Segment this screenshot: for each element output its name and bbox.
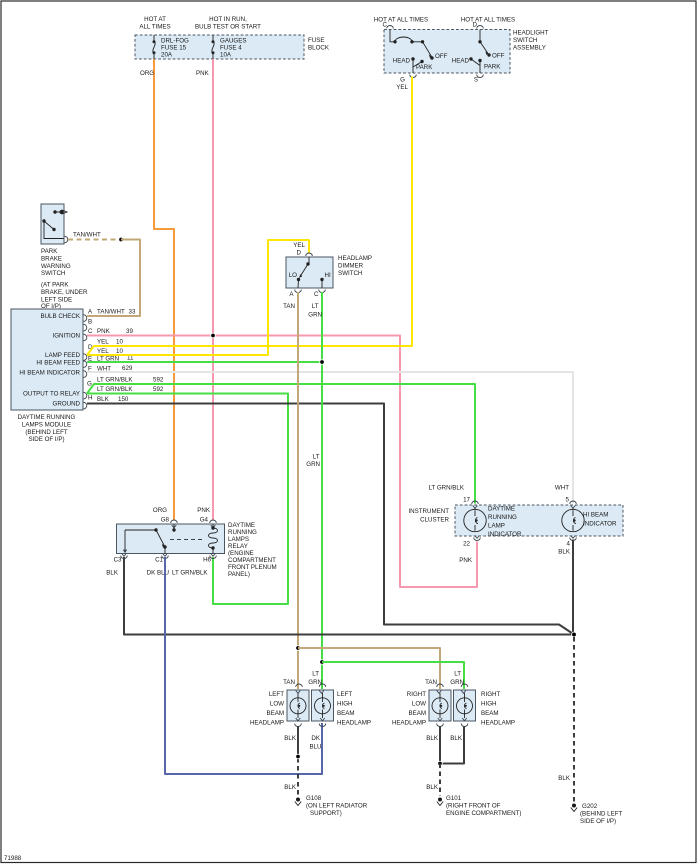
svg-text:OUTPUT TO RELAY: OUTPUT TO RELAY	[23, 391, 80, 398]
svg-text:G4: G4	[200, 517, 209, 524]
svg-text:LO: LO	[289, 272, 297, 279]
svg-text:DAYTIME: DAYTIME	[228, 522, 255, 529]
svg-text:LEFT: LEFT	[337, 691, 352, 698]
svg-text:OFF: OFF	[435, 53, 448, 60]
svg-text:HIGH: HIGH	[337, 701, 352, 708]
svg-text:FUSE 4: FUSE 4	[220, 45, 242, 52]
svg-text:BRAKE: BRAKE	[41, 255, 62, 262]
fuse block box	[135, 35, 304, 59]
svg-text:592: 592	[153, 377, 164, 384]
svg-text:CLUSTER: CLUSTER	[420, 517, 449, 524]
svg-text:HOT AT: HOT AT	[144, 16, 166, 23]
svg-text:HOT AT ALL TIMES: HOT AT ALL TIMES	[461, 17, 515, 24]
relay actuator dashed link	[170, 539, 205, 541]
svg-text:BLOCK: BLOCK	[308, 45, 330, 52]
svg-text:G101: G101	[446, 795, 462, 802]
svg-text:S: S	[474, 77, 478, 84]
svg-text:GAUGES: GAUGES	[220, 38, 246, 45]
svg-text:BULB TEST OR START: BULB TEST OR START	[195, 24, 261, 31]
dimmer switch contacts	[289, 257, 331, 288]
svg-text:LT: LT	[312, 671, 319, 678]
svg-text:RELAY: RELAY	[228, 543, 248, 550]
svg-text:TAN/WHT: TAN/WHT	[73, 232, 101, 239]
svg-text:FUSE: FUSE	[308, 37, 325, 44]
ground G108	[295, 798, 301, 806]
park brake switch label	[41, 248, 88, 310]
svg-text:17: 17	[463, 497, 470, 504]
svg-text:BLK: BLK	[558, 775, 571, 782]
right low beam headlamp	[429, 684, 451, 727]
svg-text:DK: DK	[311, 735, 320, 742]
svg-text:C: C	[88, 328, 93, 335]
svg-text:HEAD: HEAD	[452, 58, 470, 65]
svg-text:HOT IN RUN,: HOT IN RUN,	[209, 16, 247, 23]
svg-text:TAN: TAN	[283, 679, 295, 686]
svg-text:INDICATOR: INDICATOR	[488, 531, 522, 538]
svg-text:22: 22	[463, 541, 470, 548]
svg-text:G8: G8	[161, 517, 170, 524]
splice left ground	[296, 754, 301, 759]
svg-text:YEL: YEL	[396, 84, 408, 91]
svg-text:10: 10	[116, 348, 123, 355]
splice right ground	[438, 761, 443, 766]
svg-text:5: 5	[566, 497, 570, 504]
fuse GAUGES FUSE 4 10A	[212, 35, 247, 59]
svg-text:LAMP: LAMP	[488, 523, 505, 530]
svg-text:DAYTIME: DAYTIME	[488, 506, 515, 513]
svg-text:SIDE OF I/P): SIDE OF I/P)	[28, 436, 64, 443]
wire LT GRN dimmer C down to left high beam headlamp	[321, 292, 323, 689]
svg-text:SWITCH: SWITCH	[338, 270, 362, 277]
wire WHT module F to cluster pin 5	[87, 372, 573, 504]
svg-text:HEADLAMP: HEADLAMP	[392, 720, 426, 727]
svg-text:YEL: YEL	[293, 242, 305, 249]
svg-text:4: 4	[567, 541, 571, 548]
svg-text:629: 629	[122, 365, 133, 372]
svg-text:BRAKE, UNDER: BRAKE, UNDER	[41, 289, 88, 296]
svg-text:PARK: PARK	[41, 248, 58, 255]
pin park brake switch	[65, 236, 68, 243]
pin S headlight switch	[477, 75, 484, 78]
wire DK BLU relay C1 to left high beam headlamp	[165, 557, 322, 774]
svg-text:(ENGINE: (ENGINE	[228, 550, 254, 557]
svg-text:INDICATOR: INDICATOR	[583, 521, 617, 528]
svg-text:PNK: PNK	[196, 70, 210, 77]
dimmer switch box	[286, 257, 333, 288]
svg-text:HEADLAMP: HEADLAMP	[481, 720, 515, 727]
svg-text:HI BEAM: HI BEAM	[583, 512, 608, 519]
svg-text:COMPARTMENT: COMPARTMENT	[228, 557, 276, 564]
wire BLK relay C3 to ground junction	[124, 557, 574, 635]
svg-text:BEAM: BEAM	[266, 710, 284, 717]
left high beam headlamp	[312, 684, 334, 727]
svg-text:GROUND: GROUND	[53, 401, 81, 408]
svg-text:YEL: YEL	[97, 339, 109, 346]
junction LT GRN headlamp feed	[320, 660, 325, 665]
svg-text:B: B	[88, 319, 92, 326]
svg-text:LAMPS MODULE: LAMPS MODULE	[22, 421, 71, 428]
svg-text:HEADLAMP: HEADLAMP	[338, 255, 372, 262]
svg-text:PARK: PARK	[416, 64, 433, 71]
ground junction node	[572, 632, 577, 637]
svg-text:BLK: BLK	[284, 784, 297, 791]
svg-text:ORG: ORG	[140, 70, 154, 77]
svg-text:BLK: BLK	[558, 549, 571, 556]
wire TAN dimmer A to left low beam headlamp	[297, 292, 299, 689]
svg-text:PANEL): PANEL)	[228, 571, 250, 578]
pin C module	[84, 334, 87, 341]
wire LT GRN branch to right high beam headlamp	[322, 662, 464, 689]
svg-text:LT GRN/BLK: LT GRN/BLK	[97, 377, 133, 384]
relay switch contacts	[123, 524, 176, 554]
pin E module	[84, 361, 87, 368]
svg-text:(BEHIND LEFT: (BEHIND LEFT	[25, 429, 68, 436]
right high beam headlamp	[454, 684, 476, 727]
svg-text:ORG: ORG	[153, 507, 167, 514]
svg-text:GRN: GRN	[450, 679, 464, 686]
pin G module	[84, 392, 87, 399]
svg-text:PARK: PARK	[484, 64, 501, 71]
svg-text:20A: 20A	[161, 52, 173, 59]
left low beam headlamp	[287, 684, 309, 727]
module label	[18, 414, 76, 443]
svg-text:ALL TIMES: ALL TIMES	[139, 24, 170, 31]
svg-text:LT GRN/BLK: LT GRN/BLK	[172, 570, 208, 577]
svg-text:LT GRN/BLK: LT GRN/BLK	[97, 386, 133, 393]
svg-text:BLK: BLK	[450, 735, 463, 742]
svg-text:YEL: YEL	[97, 348, 109, 355]
svg-text:H: H	[88, 395, 92, 402]
svg-text:D: D	[297, 250, 302, 257]
ground G101	[437, 798, 443, 806]
svg-text:IGNITION: IGNITION	[53, 333, 81, 340]
svg-text:DIMMER: DIMMER	[338, 262, 364, 269]
svg-text:TAN: TAN	[283, 303, 295, 310]
svg-text:BLK: BLK	[426, 735, 439, 742]
wire BLK right low beam down	[439, 726, 441, 764]
pin C dimmer switch	[319, 290, 326, 293]
svg-text:PNK: PNK	[197, 507, 211, 514]
svg-text:GRN: GRN	[308, 312, 322, 319]
svg-text:DAYTIME RUNNING: DAYTIME RUNNING	[18, 414, 76, 421]
svg-text:HEADLIGHT: HEADLIGHT	[513, 30, 549, 37]
svg-text:RIGHT: RIGHT	[407, 691, 426, 698]
wire LT GRN module E to dimmer switch C	[87, 361, 322, 363]
svg-text:BEAM: BEAM	[408, 710, 426, 717]
wire YEL module D to headlight switch G	[87, 77, 412, 356]
wire BLK left low beam to G108	[297, 726, 299, 750]
svg-text:BLK: BLK	[284, 735, 297, 742]
svg-text:(RIGHT FRONT OF: (RIGHT FRONT OF	[446, 803, 501, 810]
right headlight switch contacts	[452, 30, 505, 74]
wire TAN branch to right low beam headlamp	[298, 648, 440, 689]
svg-text:GRN: GRN	[306, 461, 320, 468]
wire PNK from fuse 4 to relay G4	[212, 59, 214, 520]
svg-text:RUNNING: RUNNING	[488, 514, 517, 521]
relay label	[228, 522, 277, 578]
pin H module	[84, 402, 87, 409]
svg-text:FUSE 15: FUSE 15	[161, 45, 187, 52]
svg-text:LAMP FEED: LAMP FEED	[45, 352, 80, 359]
svg-text:OFF: OFF	[492, 53, 505, 60]
module internal labels	[19, 313, 80, 408]
svg-text:HI BEAM FEED: HI BEAM FEED	[36, 360, 80, 367]
fuse DRL-FOG FUSE 15 20A	[153, 35, 190, 59]
svg-text:SUPPORT): SUPPORT)	[310, 810, 342, 817]
svg-text:BLK: BLK	[426, 784, 439, 791]
svg-text:HEADLAMP: HEADLAMP	[337, 720, 371, 727]
svg-text:GRN: GRN	[308, 679, 322, 686]
svg-text:SWITCH: SWITCH	[513, 37, 537, 44]
svg-text:SIDE OF I/P): SIDE OF I/P)	[580, 818, 616, 825]
pin A dimmer switch	[295, 290, 302, 293]
junction TAN headlamp feed	[296, 646, 301, 651]
svg-text:LT: LT	[312, 303, 319, 310]
daytime running lamps module box	[11, 309, 83, 410]
pin D module	[84, 354, 87, 361]
svg-text:PNK: PNK	[459, 557, 473, 564]
svg-text:BLU: BLU	[309, 744, 321, 751]
svg-text:TAN: TAN	[425, 679, 437, 686]
svg-text:SWITCH: SWITCH	[41, 270, 65, 277]
svg-text:BLK: BLK	[97, 396, 110, 403]
svg-text:71988: 71988	[4, 855, 22, 862]
svg-text:BEAM: BEAM	[481, 710, 499, 717]
svg-text:LOW: LOW	[270, 701, 284, 708]
svg-text:10A: 10A	[220, 52, 232, 59]
svg-text:INSTRUMENT: INSTRUMENT	[408, 508, 449, 515]
pin G headlight switch	[410, 75, 417, 78]
wire PNK module C to cluster pin 22	[87, 336, 477, 588]
pin B module	[84, 324, 87, 331]
svg-text:LT: LT	[454, 671, 461, 678]
svg-text:G202: G202	[582, 803, 598, 810]
svg-text:WARNING: WARNING	[41, 263, 71, 270]
splice node on TAN/WHT	[119, 237, 124, 242]
svg-text:150: 150	[118, 396, 129, 403]
svg-text:RUNNING: RUNNING	[228, 529, 257, 536]
park brake warning switch box	[41, 204, 64, 244]
hi beam indicator lamp	[562, 508, 584, 532]
svg-text:BULB CHECK: BULB CHECK	[40, 313, 80, 320]
svg-text:PNK: PNK	[97, 328, 111, 335]
wire ORG from fuse 15 to relay G8	[154, 59, 174, 520]
wire BLK cluster 4 to ground junction	[572, 540, 574, 635]
svg-text:33: 33	[129, 309, 136, 316]
relay box	[117, 524, 225, 554]
svg-text:LAMPS: LAMPS	[228, 536, 249, 543]
wire BLK module H to ground junction	[87, 404, 574, 635]
svg-text:HI BEAM INDICATOR: HI BEAM INDICATOR	[19, 369, 80, 376]
svg-text:ASSEMBLY: ASSEMBLY	[513, 45, 546, 52]
wire TAN/WHT solid to module pin A	[87, 240, 140, 317]
svg-text:C: C	[314, 291, 319, 298]
wire TAN/WHT dashed from park brake switch	[68, 239, 121, 241]
svg-text:DRL-FOG: DRL-FOG	[161, 38, 189, 45]
svg-text:LT GRN/BLK: LT GRN/BLK	[428, 485, 464, 492]
svg-text:10: 10	[116, 339, 123, 346]
svg-text:G: G	[400, 77, 405, 84]
svg-text:HI: HI	[325, 272, 331, 279]
svg-text:(AT PARK: (AT PARK	[41, 282, 69, 289]
svg-text:FRONT PLENUM: FRONT PLENUM	[228, 564, 277, 571]
wire BLK dashed to G101	[439, 764, 441, 797]
svg-text:HEADLAMP: HEADLAMP	[250, 720, 284, 727]
svg-text:LEFT: LEFT	[269, 691, 284, 698]
ground G202	[571, 804, 577, 812]
svg-text:G108: G108	[306, 795, 322, 802]
junction LT GRN at module row E	[320, 360, 325, 365]
DRL indicator lamp	[464, 508, 486, 532]
svg-text:(ON LEFT RADIATOR: (ON LEFT RADIATOR	[306, 803, 368, 810]
wire BLK right high beam to splice	[442, 726, 464, 764]
pin A module	[84, 315, 87, 322]
svg-text:(BEHIND LEFT: (BEHIND LEFT	[580, 811, 623, 818]
wire YEL module D to dimmer switch D	[87, 240, 309, 355]
instrument cluster box	[455, 505, 623, 536]
svg-text:LT: LT	[313, 454, 320, 461]
pin F module	[84, 371, 87, 378]
svg-text:39: 39	[126, 328, 133, 335]
svg-text:BLK: BLK	[106, 570, 119, 577]
junction PNK at fuse feed	[211, 333, 216, 338]
svg-text:ENGINE COMPARTMENT): ENGINE COMPARTMENT)	[446, 810, 521, 817]
svg-text:HIGH: HIGH	[481, 701, 496, 708]
svg-text:HEAD: HEAD	[393, 58, 411, 65]
park brake switch contacts	[42, 210, 67, 239]
relay coil	[209, 524, 218, 554]
svg-text:BEAM: BEAM	[337, 710, 355, 717]
wire BLK dashed to G202	[573, 637, 575, 802]
svg-text:RIGHT: RIGHT	[481, 691, 500, 698]
svg-text:WHT: WHT	[555, 485, 569, 492]
svg-text:TAN/WHT: TAN/WHT	[97, 309, 125, 316]
svg-text:LOW: LOW	[412, 701, 426, 708]
left headlight switch contacts	[390, 30, 448, 74]
headlight switch assembly box	[384, 30, 510, 74]
svg-text:592: 592	[153, 386, 164, 393]
wire LT GRN/BLK module G to relay H6	[87, 394, 288, 605]
wire LT GRN/BLK module G to cluster pin 17	[87, 384, 475, 504]
